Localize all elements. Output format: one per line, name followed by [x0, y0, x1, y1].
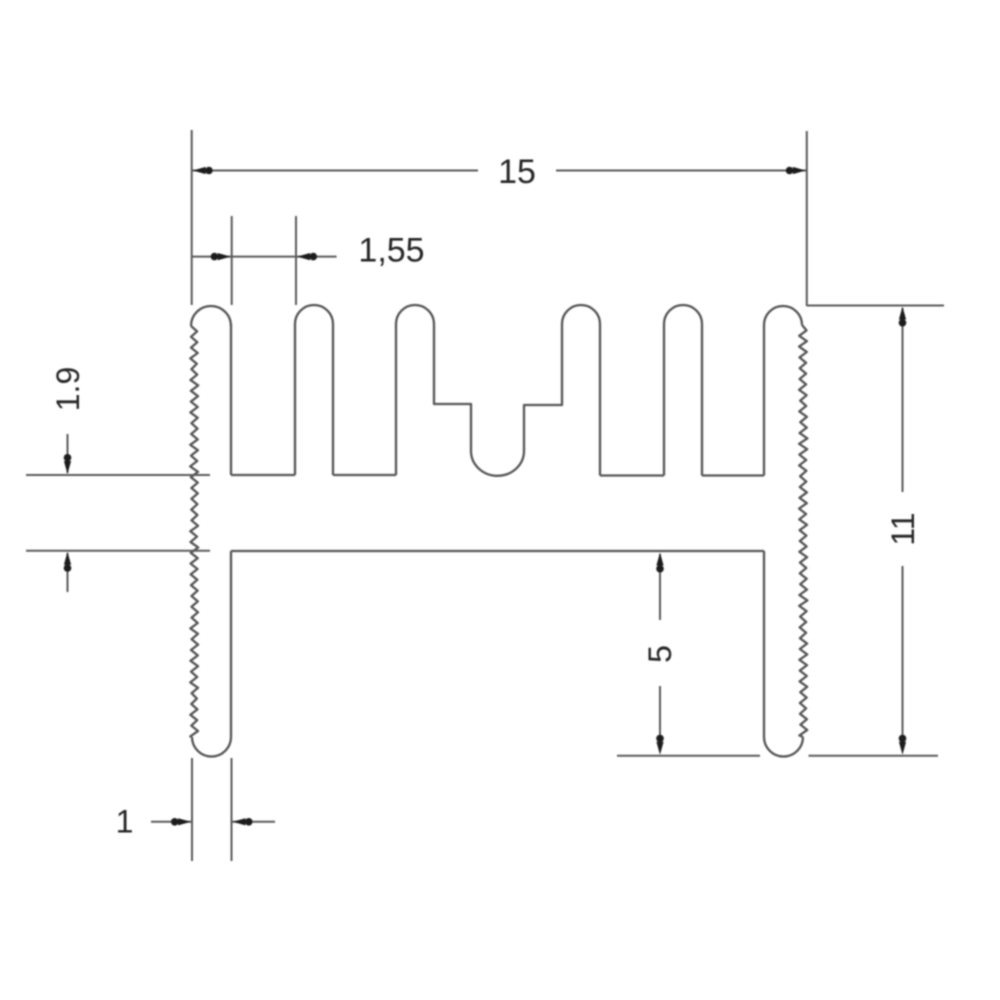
arrow dim 11 bottom	[899, 742, 906, 755]
dim 1.9 extension line bottom	[26, 550, 210, 552]
arrow dim 5 bottom	[656, 742, 663, 755]
arrow dim 1,55 right	[297, 253, 310, 260]
dim 1.9 extension line top	[26, 474, 210, 476]
svg-text:1.9: 1.9	[50, 367, 86, 411]
dim 15 extension line left	[191, 130, 193, 305]
wire left leg bottom arc	[192, 737, 231, 757]
arrow dim 1,55 left	[218, 253, 231, 260]
arrow dim 1.9 bottom	[64, 552, 71, 565]
dim 1.9 line	[67, 434, 69, 592]
wire fin 2	[295, 305, 333, 475]
svg-text:1,55: 1,55	[358, 232, 424, 270]
wire left leg outer break line	[190, 326, 198, 737]
wire right leg inner edge lower	[763, 551, 765, 737]
svg-text:1: 1	[116, 804, 134, 840]
wire right leg top arc	[764, 306, 802, 325]
wire fin 3 and center groove	[396, 305, 600, 476]
wire fin root 2-3	[333, 474, 396, 476]
dim 11 extension line top	[807, 305, 944, 307]
wire right leg bottom arc	[764, 737, 803, 757]
wire base bottom	[231, 550, 764, 552]
arrow dim 11 top	[899, 307, 906, 320]
dim 5 line	[659, 554, 661, 744]
dim 1 extension line left	[191, 758, 193, 861]
wire right leg inner edge upper	[763, 325, 765, 476]
arrow dim 1 left	[178, 818, 191, 825]
dim 1,55 extension line a	[231, 216, 233, 305]
wire left leg inner edge lower	[230, 551, 232, 737]
wire left leg inner edge upper	[230, 324, 232, 475]
dim 1,55 line	[192, 256, 337, 258]
svg-text:15: 15	[498, 153, 536, 191]
arrow dim 15 left	[193, 167, 206, 174]
dim 15 extension line right	[806, 131, 808, 306]
dim 11/5 extension line bottom	[617, 755, 938, 757]
arrow dim 15 right	[793, 167, 806, 174]
dim 1 extension line right	[231, 758, 233, 861]
svg-text:11: 11	[885, 512, 921, 545]
wire right leg outer break line	[799, 325, 807, 737]
dim 11 line	[902, 308, 904, 744]
dim 15 line	[192, 170, 807, 172]
wire left leg top arc	[191, 306, 231, 326]
dim 1 line	[151, 821, 275, 823]
svg-text:5: 5	[642, 645, 678, 663]
wire fin root 4-5	[600, 474, 664, 476]
wire fin root 1-2	[231, 474, 295, 476]
arrow dim 1.9 top	[64, 461, 71, 474]
dim 1,55 extension line b	[295, 216, 297, 305]
wire fin 5	[664, 305, 702, 476]
arrow dim 1 right	[233, 818, 246, 825]
arrow dim 5 top	[656, 553, 663, 566]
wire fin root 5-6	[702, 474, 764, 476]
